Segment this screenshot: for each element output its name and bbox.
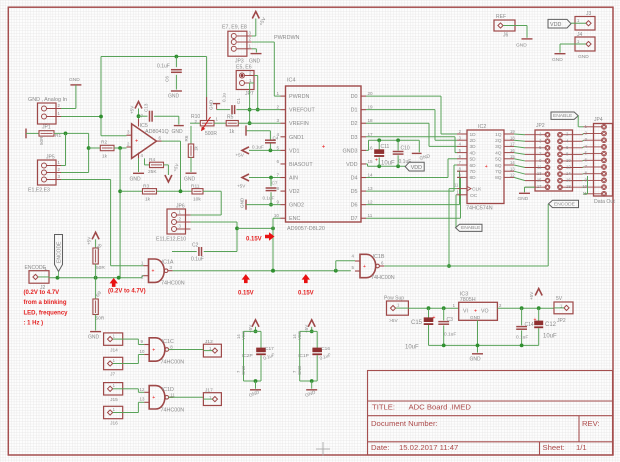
svg-text:20: 20 <box>368 91 374 96</box>
svg-text:15.02.2017 11:47: 15.02.2017 11:47 <box>399 443 458 452</box>
svg-text:REF: REF <box>496 14 506 20</box>
svg-text:13: 13 <box>510 166 515 171</box>
svg-text:(0.2V to 4.7V): (0.2V to 4.7V) <box>108 289 146 295</box>
svg-text:ENCODE: ENCODE <box>25 265 47 271</box>
svg-text:7D: 7D <box>470 169 477 175</box>
svg-text:8Q: 8Q <box>495 175 502 181</box>
svg-text:7805H: 7805H <box>460 297 476 303</box>
svg-text:7: 7 <box>276 173 279 178</box>
svg-text:GND: GND <box>297 366 302 375</box>
svg-text:74HC00N: 74HC00N <box>161 407 185 413</box>
svg-text:14: 14 <box>236 334 241 339</box>
svg-text:J12: J12 <box>205 339 213 345</box>
svg-text:74HC00N: 74HC00N <box>371 275 395 281</box>
svg-text:0.1uF: 0.1uF <box>191 257 204 263</box>
svg-text:GND: GND <box>470 315 481 320</box>
svg-text:18: 18 <box>368 118 374 123</box>
svg-text:10: 10 <box>582 184 587 189</box>
svg-text:R4: R4 <box>149 157 155 163</box>
svg-text:VDD: VDD <box>550 22 561 28</box>
svg-text:10uF: 10uF <box>543 334 557 340</box>
svg-text:E1,E2,E3: E1,E2,E3 <box>28 188 50 194</box>
svg-text:>5V: >5V <box>389 318 398 324</box>
svg-text:14: 14 <box>510 160 515 165</box>
svg-text:17: 17 <box>537 184 542 189</box>
svg-text:14: 14 <box>292 334 297 339</box>
svg-text:3: 3 <box>276 118 279 123</box>
svg-text:0.15V: 0.15V <box>246 236 262 242</box>
svg-text:C3: C3 <box>447 317 454 323</box>
svg-text:2D: 2D <box>470 138 477 144</box>
svg-text:12: 12 <box>510 173 515 178</box>
svg-text:1k: 1k <box>229 129 235 135</box>
svg-text:2: 2 <box>249 37 252 42</box>
svg-text:JP2: JP2 <box>557 318 566 324</box>
svg-text:PWRDWN: PWRDWN <box>274 35 300 41</box>
svg-text:GND: GND <box>552 57 563 63</box>
svg-text:ENCODE: ENCODE <box>554 201 576 207</box>
svg-text:C4: C4 <box>273 136 279 141</box>
svg-text:5V: 5V <box>556 296 563 302</box>
svg-text:R6: R6 <box>184 135 189 141</box>
svg-text:D7: D7 <box>351 216 358 222</box>
svg-text:Date:: Date: <box>371 443 389 452</box>
svg-text:VREFIN: VREFIN <box>289 121 309 127</box>
svg-text:D6: D6 <box>351 203 358 209</box>
svg-text:C6: C6 <box>165 76 170 82</box>
svg-text:Data Out: Data Out <box>594 199 615 205</box>
svg-text:R5: R5 <box>227 115 234 121</box>
svg-text:+: + <box>375 158 378 164</box>
svg-text:VD2: VD2 <box>289 189 300 195</box>
svg-text:C15: C15 <box>411 320 423 326</box>
svg-text:R3: R3 <box>143 183 149 189</box>
svg-text:J14: J14 <box>110 347 118 353</box>
svg-text:VREFOUT: VREFOUT <box>289 108 315 114</box>
svg-text:Document Number:: Document Number: <box>371 419 438 428</box>
svg-text:J17: J17 <box>205 388 213 394</box>
svg-text:D2: D2 <box>351 121 358 127</box>
svg-text:GND: GND <box>172 129 184 135</box>
svg-text:11: 11 <box>170 392 175 397</box>
svg-text:15: 15 <box>537 178 542 183</box>
svg-text:10uF: 10uF <box>381 161 395 167</box>
svg-text:74HC00N: 74HC00N <box>161 280 185 286</box>
svg-text:: 1 Hz ): : 1 Hz ) <box>24 321 44 327</box>
svg-text:1k: 1k <box>102 154 108 160</box>
svg-text:ENABLE: ENABLE <box>461 225 481 231</box>
svg-text:E11,E12,E10: E11,E12,E10 <box>156 237 186 243</box>
svg-text:25K: 25K <box>148 169 157 175</box>
svg-text:GND: GND <box>240 197 245 208</box>
svg-text:5D: 5D <box>470 157 477 163</box>
svg-text:REV:: REV: <box>582 419 600 428</box>
svg-text:18: 18 <box>566 184 571 189</box>
svg-text:PWRDN: PWRDN <box>289 94 309 100</box>
svg-text:500R: 500R <box>205 131 217 137</box>
svg-text:4D: 4D <box>470 150 477 156</box>
svg-text:17: 17 <box>510 142 515 147</box>
svg-text:+5V: +5V <box>130 105 135 114</box>
svg-text:74HC00N: 74HC00N <box>161 360 185 366</box>
svg-text:AD9057-D8L20: AD9057-D8L20 <box>287 226 325 232</box>
svg-text:GND: GND <box>578 54 589 60</box>
svg-text:1Q: 1Q <box>495 132 502 138</box>
svg-text:OC: OC <box>470 193 478 199</box>
svg-text:0.1uF: 0.1uF <box>444 332 456 338</box>
svg-text:+: + <box>322 145 326 151</box>
svg-text:74HC574N: 74HC574N <box>466 206 493 212</box>
svg-text:JP4: JP4 <box>594 117 603 123</box>
svg-text:VDD: VDD <box>411 165 422 171</box>
svg-text:50R: 50R <box>96 265 105 271</box>
svg-text:16: 16 <box>566 178 571 183</box>
svg-text:LED, frequency: LED, frequency <box>24 310 69 316</box>
svg-text:C10: C10 <box>401 146 410 152</box>
svg-text:R2: R2 <box>101 140 107 146</box>
svg-text:11: 11 <box>368 213 373 218</box>
svg-text:14: 14 <box>566 171 571 176</box>
svg-text:GND: GND <box>184 177 196 183</box>
svg-text:7Q: 7Q <box>495 169 502 175</box>
svg-text:19: 19 <box>510 129 515 134</box>
svg-text:13: 13 <box>368 186 374 191</box>
svg-text:18: 18 <box>510 135 515 140</box>
svg-text:Sheet:: Sheet: <box>543 443 565 452</box>
svg-text:50R: 50R <box>96 316 105 322</box>
svg-text:GND: GND <box>241 366 246 375</box>
svg-text:C7: C7 <box>272 181 278 186</box>
svg-text:GND: GND <box>518 196 529 202</box>
svg-text:AD8041Q: AD8041Q <box>145 129 169 135</box>
svg-text:VCC: VCC <box>241 331 246 340</box>
svg-text:3Q: 3Q <box>495 144 502 150</box>
svg-text:3D: 3D <box>470 144 477 150</box>
svg-text:14: 14 <box>368 173 374 178</box>
svg-text:+: + <box>135 139 138 145</box>
svg-text:1: 1 <box>276 91 279 96</box>
svg-text:JP1: JP1 <box>42 125 51 131</box>
svg-text:IC2P: IC2P <box>242 353 253 359</box>
svg-text:+5V: +5V <box>529 291 534 300</box>
svg-text:1k: 1k <box>145 196 151 202</box>
svg-text:0.15V: 0.15V <box>298 291 314 297</box>
svg-text:0.15V: 0.15V <box>238 291 254 297</box>
svg-text:10: 10 <box>140 349 145 354</box>
svg-text:IC1B: IC1B <box>373 254 385 260</box>
svg-text:JP2: JP2 <box>536 123 545 129</box>
svg-text:8: 8 <box>276 186 279 191</box>
svg-text:10k: 10k <box>193 196 201 202</box>
svg-text:6: 6 <box>276 159 279 164</box>
svg-text:GND2: GND2 <box>289 203 304 209</box>
svg-text:BIASOUT: BIASOUT <box>289 162 313 168</box>
svg-text:GND3: GND3 <box>343 148 358 154</box>
svg-text:VO: VO <box>481 309 489 315</box>
svg-text:E7, E9, E8: E7, E9, E8 <box>222 25 247 31</box>
svg-text:IC4: IC4 <box>287 78 296 84</box>
svg-text:+: + <box>534 317 537 323</box>
svg-text:C13: C13 <box>143 103 148 112</box>
svg-text:2: 2 <box>249 71 252 76</box>
svg-text:ADC Board .IMED: ADC Board .IMED <box>409 403 472 412</box>
svg-text:GND1: GND1 <box>289 135 304 141</box>
svg-text:15: 15 <box>368 159 374 164</box>
svg-text:6Q: 6Q <box>495 163 502 169</box>
svg-text:GND: GND <box>69 77 80 83</box>
svg-text:C12: C12 <box>545 322 557 328</box>
svg-text:50R: 50R <box>39 136 44 145</box>
svg-text:J4: J4 <box>577 32 583 38</box>
svg-text:J6: J6 <box>503 33 509 39</box>
svg-text:VD1: VD1 <box>289 148 300 154</box>
svg-text:1: 1 <box>249 78 252 83</box>
svg-text:VCC: VCC <box>297 331 302 340</box>
svg-text:19: 19 <box>368 105 374 110</box>
svg-text:GND: GND <box>168 94 180 100</box>
svg-text:4Q: 4Q <box>495 150 502 156</box>
svg-text:10: 10 <box>274 213 280 218</box>
svg-text:2Q: 2Q <box>495 138 502 144</box>
svg-text:5: 5 <box>276 145 279 150</box>
svg-text:TITLE:: TITLE: <box>372 403 395 412</box>
svg-text:1D: 1D <box>470 132 477 138</box>
svg-text:+: + <box>485 164 488 170</box>
svg-text:+: + <box>152 269 155 275</box>
svg-text:1/1: 1/1 <box>576 443 587 452</box>
svg-text:GND: GND <box>470 357 482 363</box>
svg-text:ENABLE: ENABLE <box>553 113 573 119</box>
svg-text:13: 13 <box>537 171 542 176</box>
svg-text:J15: J15 <box>110 397 118 403</box>
svg-text:GND: GND <box>516 43 527 49</box>
svg-text:+: + <box>152 395 155 401</box>
svg-text:ENC: ENC <box>289 216 300 222</box>
svg-text:0.1uF: 0.1uF <box>263 196 275 201</box>
svg-text:16: 16 <box>510 148 515 153</box>
svg-text:3: 3 <box>249 31 252 36</box>
svg-text:D4: D4 <box>351 176 358 182</box>
svg-text:+: + <box>433 315 436 321</box>
svg-text:11: 11 <box>454 183 459 188</box>
svg-text:GND , Analog In: GND , Analog In <box>28 97 67 103</box>
svg-text:+: + <box>363 264 366 270</box>
svg-text:ENCODE: ENCODE <box>56 241 62 263</box>
svg-text:+: + <box>152 347 155 353</box>
svg-text:D5: D5 <box>351 189 358 195</box>
svg-text:12: 12 <box>566 165 571 170</box>
svg-text:AIN: AIN <box>289 176 298 182</box>
svg-text:1: 1 <box>249 43 252 48</box>
svg-text:J3: J3 <box>586 11 592 17</box>
svg-text:C16: C16 <box>321 346 330 352</box>
svg-text:0.1uF: 0.1uF <box>157 64 170 70</box>
svg-text:from a blinking: from a blinking <box>24 300 67 306</box>
svg-text:VI: VI <box>463 309 468 315</box>
svg-text:+5V: +5V <box>237 184 246 189</box>
svg-text:12: 12 <box>368 200 374 205</box>
svg-text:C11: C11 <box>381 144 390 150</box>
svg-text:13: 13 <box>140 397 145 402</box>
svg-text:GND: GND <box>88 335 100 341</box>
svg-text:C17: C17 <box>265 346 274 352</box>
svg-text:GND: GND <box>130 177 142 183</box>
svg-text:0.1uF: 0.1uF <box>516 335 528 341</box>
svg-text:15: 15 <box>510 154 515 159</box>
svg-text:D3: D3 <box>351 135 358 141</box>
svg-text:10: 10 <box>566 158 571 163</box>
svg-text:10uF: 10uF <box>405 345 419 351</box>
svg-text:J16: J16 <box>110 421 118 427</box>
svg-text:D0: D0 <box>351 94 358 100</box>
svg-text:IC1P: IC1P <box>298 353 309 359</box>
svg-text:5Q: 5Q <box>495 157 502 163</box>
svg-text:CLK: CLK <box>472 187 482 193</box>
svg-text:IC2: IC2 <box>478 124 486 130</box>
svg-text:GND: GND <box>209 99 214 110</box>
svg-text:0.1u: 0.1u <box>222 93 227 102</box>
svg-text:17: 17 <box>368 132 374 137</box>
svg-text:+5V: +5V <box>236 153 245 158</box>
svg-text:D1: D1 <box>351 108 358 114</box>
svg-text:J7: J7 <box>110 372 115 378</box>
svg-text:R11: R11 <box>191 183 200 189</box>
svg-text:C1: C1 <box>236 98 241 104</box>
svg-text:+: + <box>474 309 477 315</box>
svg-text:11: 11 <box>537 165 542 170</box>
svg-text:6D: 6D <box>470 163 477 169</box>
svg-text:VDD: VDD <box>346 162 357 168</box>
svg-text:C14: C14 <box>525 322 534 328</box>
svg-text:IC1A: IC1A <box>162 260 174 266</box>
svg-text:(0.2V to 4.7V: (0.2V to 4.7V <box>24 290 60 296</box>
svg-text:8D: 8D <box>470 175 477 181</box>
svg-text:C2: C2 <box>192 243 199 249</box>
svg-text:1k: 1k <box>194 145 199 151</box>
svg-text:2: 2 <box>276 105 279 110</box>
svg-text:0.1uF: 0.1uF <box>252 145 264 150</box>
svg-text:+5V: +5V <box>87 236 92 245</box>
svg-text:12: 12 <box>140 387 145 392</box>
svg-text:9: 9 <box>276 200 279 205</box>
